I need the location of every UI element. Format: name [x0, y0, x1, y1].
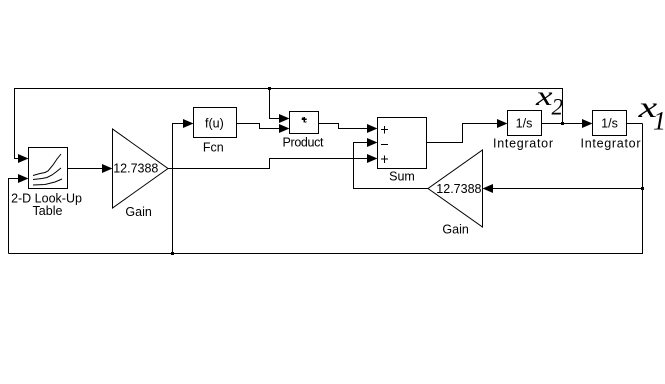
svg-text:Table: Table [33, 204, 63, 218]
svg-text:12.7388: 12.7388 [436, 182, 481, 196]
svg-text:1: 1 [653, 107, 665, 136]
svg-text:Integrator: Integrator [581, 137, 641, 151]
svg-text:Integrator: Integrator [493, 137, 553, 151]
svg-text:x: x [535, 81, 553, 111]
svg-text:1/s: 1/s [601, 117, 618, 131]
svg-text:Gain: Gain [442, 223, 468, 237]
svg-text:12.7388: 12.7388 [113, 162, 158, 176]
svg-text:Fcn: Fcn [203, 141, 224, 155]
svg-text:1/s: 1/s [516, 117, 533, 131]
svg-text:Product: Product [283, 136, 325, 150]
svg-text:2: 2 [552, 95, 564, 120]
svg-text:Sum: Sum [389, 170, 415, 184]
svg-text:Gain: Gain [125, 205, 151, 219]
svg-text:f(u): f(u) [205, 117, 224, 131]
